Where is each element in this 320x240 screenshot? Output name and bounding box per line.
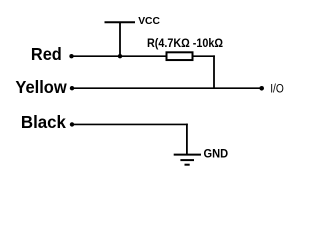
svg-text:VCC: VCC xyxy=(138,16,160,27)
svg-text:Black: Black xyxy=(21,112,66,132)
ground bar 3 xyxy=(185,164,190,166)
ground bar 2 xyxy=(180,159,194,161)
svg-text:Yellow: Yellow xyxy=(15,77,67,97)
Black terminal dot xyxy=(70,122,74,126)
I/O terminal dot xyxy=(259,86,264,91)
ground bar 1 xyxy=(174,154,201,156)
wire corner down to I/O line xyxy=(213,55,215,88)
wire VCC vertical drop xyxy=(119,22,121,56)
resistor R body xyxy=(167,52,193,60)
Red terminal dot xyxy=(69,54,73,58)
svg-text:R(4.7KΩ -10kΩ: R(4.7KΩ -10kΩ xyxy=(147,36,223,50)
svg-text:Red: Red xyxy=(31,44,62,64)
VCC power rail bar xyxy=(105,21,136,23)
Yellow terminal dot xyxy=(70,86,74,90)
wire Yellow horizontal xyxy=(72,87,262,89)
wire Red horizontal xyxy=(72,55,167,57)
wire down to ground xyxy=(186,124,188,155)
junction node Red/VCC xyxy=(118,54,122,58)
wire Black horizontal xyxy=(72,123,188,125)
wire resistor to corner xyxy=(194,55,215,57)
svg-text:I/O: I/O xyxy=(270,81,284,95)
svg-text:GND: GND xyxy=(204,147,229,160)
